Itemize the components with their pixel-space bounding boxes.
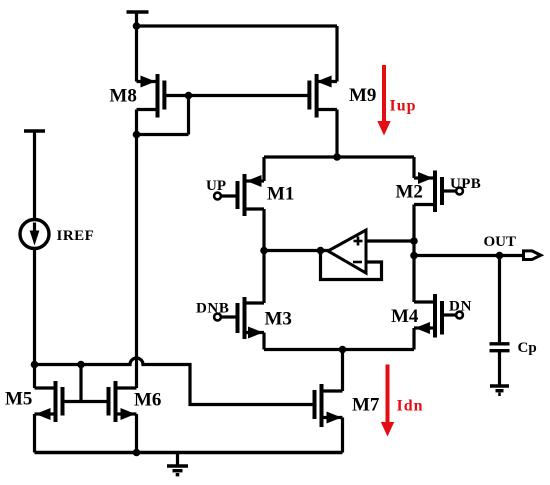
node dot at op-amp + input tap [410,237,418,245]
wire: down to M7 drain [341,350,344,392]
op-amp U1 (unity-gain buffer, pointing left) [328,230,366,273]
svg-text:IREF: IREF [57,228,95,244]
node dot at mirror input node [31,361,39,369]
wire: M8 drain down to M6 drain (long left vertical) [135,110,138,389]
svg-text:M7: M7 [352,395,380,416]
node dot at gate-drop tap [77,361,85,369]
wire: M5 gate to M6 gate [63,400,109,403]
wire: M8 gate to M9 gate [164,94,309,97]
wire: top rail from VDD to M9 source riser [137,26,338,82]
wire: feedback loop from output to - input [321,251,382,280]
transistor M8 (PMOS, diode-connected) [137,74,165,118]
wire: M1 drain down to left bridge node [262,209,265,303]
pin DN (gate terminal of M4) [442,312,463,319]
wire: M9 drain down to bridge top rail [335,110,338,158]
transistor M7 (NMOS mirror output) [315,384,343,453]
svg-text:UPB: UPB [450,176,481,192]
transistor M5 (NMOS diode, mirror input) [35,365,63,453]
transistor M1 (PMOS switch) [238,174,265,216]
node dot at M8 drain [133,131,141,139]
wire: mirror rail with hop over left vertical [35,358,315,405]
node dot at M6 source on ground rail [133,449,141,457]
svg-text:M6: M6 [134,390,161,411]
capacitor Cp [490,256,510,385]
pin UPB (gate terminal of M2) [442,188,463,195]
wire: IREF to mirror node [33,249,36,365]
node dot at VDD junction [133,22,141,30]
wire: ground rail (bottom) [35,451,343,454]
node dot at OUT tap [410,252,418,260]
wire: bridge top rail (M1 source to M2 source) [264,155,414,158]
ground symbol (main) [167,453,188,475]
node dot at M7 drain tap [339,346,347,354]
transistor M2 (PMOS switch) [414,171,442,213]
transistor M6 (NMOS mirror) [109,381,137,453]
current source IREF [20,220,49,249]
svg-text:Iup: Iup [390,98,417,115]
svg-text:M4: M4 [391,306,419,327]
VDD supply bar (left, IREF branch) [24,131,45,220]
VDD supply bar (top center) [127,12,149,82]
svg-text:OUT: OUT [484,234,517,250]
pin UP (gate terminal of M1) [214,193,237,200]
wire: gate drop to M5/M6 gates [79,365,82,402]
node dot at left bridge node A [260,247,268,255]
svg-text:M1: M1 [267,184,294,205]
current arrow Iup (red) [377,65,390,136]
pin DNB (gate terminal of M3) [214,314,237,321]
node dot at op-amp output/feedback junction [317,247,325,255]
svg-text:UP: UP [206,178,226,194]
wire: op-amp + input to right column [366,239,414,242]
svg-text:M5: M5 [5,389,32,410]
svg-text:M3: M3 [265,309,292,330]
svg-text:DNB: DNB [196,301,229,317]
wire: M3 source to bridge bottom rail [262,333,265,350]
wire: op-amp output to left bridge node [264,249,330,252]
current arrow Idn (red) [381,365,394,437]
wire: riser to M1 source [262,157,265,181]
ground symbol (at Cp) [490,386,509,394]
transistor M4 (NMOS switch) [414,294,442,338]
wire: M8 diode connection (gate to drain) [137,96,189,135]
svg-text:M8: M8 [109,86,136,107]
node dot at bridge top rail [333,153,341,161]
OUT terminal symbol [524,251,541,260]
wire: riser to M2 source [412,157,415,178]
node dot on gate wire [185,92,193,100]
wire: M2 drain down to M4 drain (right column) [412,205,415,303]
transistor M3 (NMOS switch) [238,297,265,339]
svg-text:M2: M2 [396,182,423,203]
wire: bridge bottom rail (M3 source to M4 source) [264,348,414,351]
transistor M9 (PMOS) [309,74,337,118]
svg-text:DN: DN [449,299,472,315]
wire: M4 source to bridge bottom rail [412,328,415,350]
wire: OUT line [414,254,524,257]
svg-text:Idn: Idn [397,398,424,415]
svg-text:Cp: Cp [518,340,537,356]
svg-text:M9: M9 [349,85,376,106]
node dot at Cp tap [496,252,504,260]
